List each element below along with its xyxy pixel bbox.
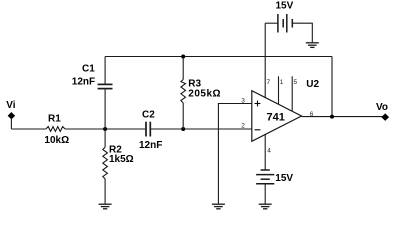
resistor R3 [181, 80, 186, 103]
junction output feedback [330, 115, 334, 119]
wire node A down to R2 [104, 129, 106, 147]
op-amp U2 triangle [252, 91, 302, 142]
svg-text:U2: U2 [306, 79, 319, 90]
resistor R2 [103, 147, 108, 179]
svg-text:7: 7 [267, 79, 271, 86]
svg-text:10kΩ: 10kΩ [44, 135, 69, 146]
wire R1 to node A [65, 128, 145, 130]
svg-text:R1: R1 [48, 113, 61, 124]
wire output pin6 to Vo [302, 116, 386, 118]
battery V2 -15V bottom [256, 170, 274, 184]
wire feedback top rail [105, 56, 332, 58]
svg-text:4: 4 [267, 148, 271, 155]
svg-text:5: 5 [294, 79, 298, 86]
ground under bottom battery [259, 204, 272, 209]
svg-text:205kΩ: 205kΩ [188, 88, 221, 99]
junction node B [181, 127, 185, 131]
junction R3 top on rail [181, 55, 185, 59]
svg-text:741: 741 [267, 112, 285, 124]
capacitor C1 [98, 84, 113, 88]
svg-text:12nF: 12nF [72, 77, 95, 88]
wire bottom battery to ground [264, 184, 266, 204]
svg-text:3: 3 [241, 97, 245, 104]
capacitor C2 [146, 122, 150, 137]
pin 1 stub [278, 76, 280, 104]
wire Vi down [10, 118, 12, 129]
ground top right [306, 43, 319, 48]
node Vi terminal diamond [8, 113, 14, 119]
wire Vi to R1 [11, 128, 45, 130]
wire R3 up to feedback rail [182, 57, 184, 80]
pin 5 stub [291, 76, 293, 111]
battery V1 +15V top [278, 14, 292, 33]
node Vo terminal diamond [382, 114, 389, 120]
ground under pin3 branch [212, 204, 225, 209]
ground under R2 [99, 204, 112, 209]
wire node B up to R3 [182, 103, 184, 129]
svg-text:15V: 15V [275, 173, 293, 184]
svg-text:2: 2 [241, 123, 245, 130]
wire battery top right terminal to ground [292, 23, 312, 42]
wire pin7 from battery [264, 23, 266, 97]
wire C1 up to feedback rail [104, 57, 106, 85]
wire node A up to C1 [104, 90, 106, 130]
resistor R1 [46, 127, 65, 132]
wire C2 to node B [151, 128, 252, 130]
junction node A [103, 127, 107, 131]
svg-text:1k5Ω: 1k5Ω [109, 154, 134, 165]
wire pin4 down to battery [264, 134, 266, 170]
svg-text:12nF: 12nF [139, 140, 162, 151]
wire R2 to ground [104, 179, 106, 204]
svg-text:C2: C2 [142, 109, 155, 120]
op-amp plus sign [255, 101, 261, 107]
wire op-amp pin3 to ground branch [218, 104, 252, 205]
wire feedback drop to output [331, 57, 333, 117]
svg-text:C1: C1 [82, 64, 95, 75]
svg-text:15V: 15V [276, 1, 294, 12]
wire battery top left terminal [265, 22, 278, 24]
op-amp minus sign [255, 129, 261, 131]
svg-text:1: 1 [280, 79, 284, 86]
svg-text:Vo: Vo [376, 102, 388, 113]
svg-text:Vi: Vi [6, 100, 15, 111]
